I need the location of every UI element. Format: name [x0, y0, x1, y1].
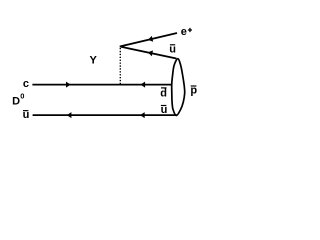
svg-text:D: D	[12, 95, 20, 107]
svg-text:Y: Y	[89, 54, 97, 66]
svg-text:c: c	[23, 78, 29, 90]
svg-text:d: d	[160, 88, 167, 100]
svg-text:0: 0	[20, 92, 24, 101]
svg-text:e: e	[181, 26, 187, 38]
